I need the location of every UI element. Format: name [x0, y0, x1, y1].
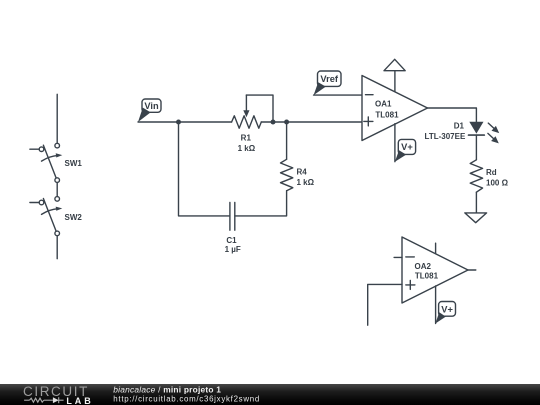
svg-text:OA1: OA1	[375, 100, 392, 109]
resistor R4	[281, 159, 293, 190]
label Rd value	[486, 168, 509, 188]
svg-text:C1: C1	[226, 236, 237, 245]
resistor Rd	[470, 160, 482, 192]
node junction at Vin branch	[176, 120, 181, 125]
wire OA1 top supply pin	[394, 71, 396, 92]
svg-text:TL081: TL081	[375, 111, 399, 120]
node junction at R1 wiper loop	[271, 120, 276, 125]
wire OA2 output stub	[468, 269, 476, 271]
wire OA2 inverting input stub	[394, 256, 402, 258]
label C1 value	[225, 236, 241, 254]
capacitor C1	[230, 202, 235, 230]
svg-text:LTL-307EE: LTL-307EE	[425, 132, 466, 141]
svg-text:1 µF: 1 µF	[225, 245, 241, 254]
label R1 value	[238, 134, 256, 153]
flag Vref	[314, 71, 341, 95]
switch SW1	[30, 94, 62, 196]
ground	[465, 213, 487, 223]
wire OA1 output to D1	[428, 108, 477, 122]
wire C1 left branch	[179, 122, 230, 216]
wire OA2 top supply pin	[435, 243, 437, 253]
label R4 value	[297, 168, 315, 187]
svg-text:R1: R1	[241, 134, 252, 143]
svg-text:1 kΩ: 1 kΩ	[297, 178, 315, 187]
label OA1 TL081	[375, 100, 399, 120]
wire OA2 non-inverting input	[368, 284, 402, 325]
op-amp OA2	[402, 237, 468, 303]
svg-text:SW2: SW2	[65, 213, 83, 222]
LED D1	[469, 122, 500, 144]
flag Vin	[138, 99, 161, 122]
wire Vref to OA1 inverting input	[314, 94, 362, 96]
svg-text:OA2: OA2	[415, 262, 432, 271]
node junction at R4 branch	[284, 120, 289, 125]
svg-text:Vref: Vref	[320, 74, 338, 84]
svg-text:R4: R4	[297, 168, 308, 177]
resistor R1 (potentiometer)	[232, 95, 273, 128]
wire OA2 bottom supply pin	[435, 286, 437, 324]
op-amp OA1	[362, 76, 428, 141]
flag V+ at OA2	[435, 302, 455, 324]
wire Rd to ground	[475, 192, 477, 213]
wire main horizontal net (Vin to OA1 +)	[138, 121, 232, 123]
svg-text:http://circuitlab.com/c36jxykf: http://circuitlab.com/c36jxykf2swnd	[113, 395, 260, 404]
switch SW2	[30, 197, 62, 259]
svg-text:D1: D1	[454, 121, 465, 130]
wire OA1 bottom supply pin	[394, 124, 396, 162]
svg-text:TL081: TL081	[415, 272, 439, 281]
label D1 LTL-307EE	[425, 121, 466, 141]
svg-text:1 kΩ: 1 kΩ	[238, 144, 256, 153]
svg-text:LAB: LAB	[66, 396, 93, 405]
svg-text:V+: V+	[401, 142, 413, 152]
footer bar	[0, 384, 540, 405]
wire D1 cathode to Rd	[475, 135, 477, 160]
svg-text:V+: V+	[441, 304, 453, 314]
CircuitLab logo	[23, 384, 94, 405]
flag V+ at OA1	[395, 139, 416, 161]
label OA2 TL081	[415, 262, 439, 281]
svg-text:biancalace / mini projeto 1: biancalace / mini projeto 1	[113, 385, 221, 395]
svg-text:Vin: Vin	[144, 101, 159, 111]
svg-text:SW1: SW1	[65, 159, 83, 168]
wire R4 bottom to C1 net	[235, 191, 287, 216]
power supply symbol above OA1	[384, 59, 405, 70]
svg-text:100 Ω: 100 Ω	[486, 179, 509, 188]
svg-text:Rd: Rd	[486, 168, 497, 177]
wire R4 branch vertical	[286, 122, 288, 159]
